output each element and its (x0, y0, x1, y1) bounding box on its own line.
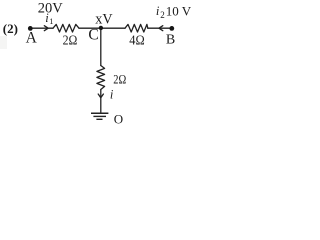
wire A to resistor 2ohm (30, 27, 53, 29)
wire resistor to node B (148, 27, 172, 29)
wire node C to resistor 4ohm (101, 27, 125, 29)
svg-text:C: C (88, 27, 98, 44)
svg-text:B: B (166, 32, 175, 47)
svg-text:2: 2 (160, 10, 165, 20)
svg-text:(2): (2) (3, 21, 18, 36)
current arrow i2 (159, 26, 163, 31)
faint scan smudge (0, 36, 7, 49)
resistor R3 2ohm (vertical C-O) (97, 66, 105, 90)
svg-text:2Ω: 2Ω (63, 34, 78, 49)
svg-text:10 V: 10 V (166, 4, 192, 19)
wire resistor to ground (100, 90, 102, 114)
node C (dot) (99, 26, 103, 30)
current arrow i1 (44, 26, 48, 31)
svg-text:i: i (110, 88, 114, 102)
svg-text:O: O (114, 111, 123, 126)
svg-text:20V: 20V (38, 1, 64, 17)
resistor R1 2ohm (A-C) (53, 24, 79, 32)
resistor R2 4ohm (C-B) (125, 24, 148, 32)
wire node C down (100, 28, 102, 65)
ground O (91, 113, 108, 119)
current arrow i (down) (98, 94, 103, 98)
svg-text:xV: xV (95, 12, 113, 28)
svg-text:2Ω: 2Ω (113, 71, 126, 86)
node A (dot) (28, 26, 33, 31)
svg-text:4Ω: 4Ω (129, 34, 144, 49)
wire resistor to node C (79, 27, 101, 29)
node B (dot) (169, 26, 174, 31)
svg-text:A: A (26, 29, 38, 46)
svg-text:1: 1 (49, 16, 53, 26)
